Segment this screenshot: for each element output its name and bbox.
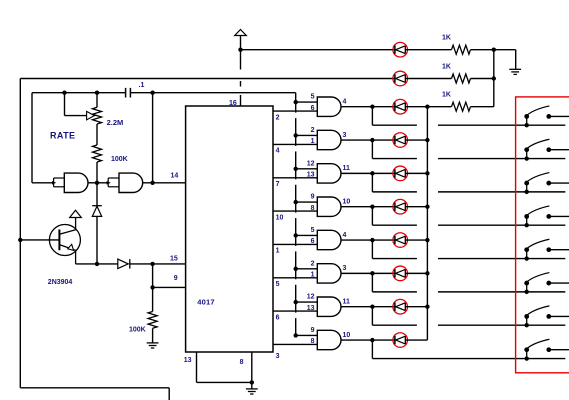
AND gate U1A — [64, 173, 88, 192]
wire 100K to ground — [152, 328, 154, 343]
node emitter/diode junction — [95, 262, 99, 266]
node LED bus row 5 — [425, 238, 429, 242]
wire gate 8 output — [341, 339, 395, 341]
wire jog 1 down — [371, 107, 373, 126]
wire jog 3 down — [371, 173, 373, 192]
wire LED 7 to LED bus — [405, 306, 427, 308]
svg-text:9: 9 — [174, 275, 178, 282]
wire jog 6 down — [371, 273, 373, 292]
node clock bus tap row 6 — [294, 267, 298, 271]
wire row3 LED to bus — [405, 106, 451, 108]
wire row2 resistor to bus — [471, 78, 494, 80]
switch S3 — [526, 183, 528, 192]
wire power rail to 4017 pin 16 (broken at crossings) — [240, 50, 242, 70]
node transistor base tap — [18, 238, 22, 242]
wire row2 (top of outer loop) — [20, 78, 395, 80]
svg-text:1: 1 — [311, 138, 315, 145]
node LED bus row 3 — [425, 171, 429, 175]
wire LED 5 to LED bus — [405, 239, 427, 241]
wire LED 4 to LED bus — [405, 206, 427, 208]
node gate 8 output / jog tap — [370, 338, 374, 342]
svg-text:5: 5 — [276, 281, 280, 288]
switch S4 — [526, 216, 528, 225]
svg-text:10: 10 — [276, 214, 284, 221]
svg-text:6: 6 — [276, 314, 280, 321]
wire jog 8 down — [371, 340, 373, 359]
LED D4 — [393, 133, 408, 148]
svg-text:100K: 100K — [111, 156, 128, 163]
wire power arrow stem — [240, 36, 242, 50]
AND gate G3 — [317, 164, 341, 183]
wire switch S5 contact out — [549, 249, 569, 251]
AND gate G7 — [317, 297, 341, 316]
wire jog 3 horizontal (broken at LED bus) — [372, 191, 417, 193]
LED D8 — [393, 266, 408, 281]
transistor Q1 2N3904 — [49, 225, 80, 256]
switch box (red) — [516, 97, 569, 373]
svg-text:8: 8 — [311, 205, 315, 212]
svg-text:1: 1 — [276, 248, 280, 255]
node clock bus tap row 2 — [294, 133, 298, 137]
switch S1 — [526, 116, 528, 125]
wire jog 8 horizontal — [372, 358, 565, 360]
svg-text:3: 3 — [343, 132, 347, 139]
wire oscillator loop left — [31, 93, 33, 183]
svg-text:1K: 1K — [442, 92, 451, 99]
node U1A out / RC junction — [95, 181, 99, 185]
wire 4017 pin 1 to gate 5 bottom input — [273, 243, 317, 245]
node row1/right bus — [492, 48, 496, 52]
wire pot to 100K — [96, 124, 98, 145]
node gate 1 output / jog tap — [370, 105, 374, 109]
svg-text:1K: 1K — [442, 35, 451, 42]
wire jog 4 horizontal (broken at LED bus) — [372, 224, 417, 226]
node clock bus tap row 8 — [294, 333, 298, 337]
wire gate 8 top input — [296, 334, 318, 336]
wire gate row to diode D11 — [96, 183, 98, 206]
AND gate G4 — [317, 197, 341, 216]
wire Q1 emitter — [59, 245, 75, 264]
wire gate 2 output — [341, 139, 395, 141]
node gate 4 output / jog tap — [370, 204, 374, 208]
svg-text:2: 2 — [311, 260, 315, 267]
svg-text:100K: 100K — [129, 327, 146, 334]
svg-text:14: 14 — [171, 172, 179, 179]
wire gate 3 top input — [296, 168, 318, 170]
wire LED 8 to LED bus — [405, 339, 427, 341]
svg-text:5: 5 — [311, 227, 315, 234]
svg-text:2: 2 — [276, 114, 280, 121]
wire switch S8 contact out — [549, 349, 569, 351]
wire jog 1 horizontal (broken at LED bus) — [372, 124, 417, 126]
ground (below R5) — [147, 342, 159, 344]
node gate 5 output / jog tap — [370, 238, 374, 242]
diode D12 (horizontal, cathode right) — [118, 259, 128, 269]
wire switch S1 contact out — [549, 115, 569, 117]
svg-text:15: 15 — [170, 255, 178, 262]
AND gate U1A input bracket — [52, 181, 56, 185]
LED D7 — [393, 233, 408, 248]
wire 4017 pin 5 to gate 6 bottom input — [273, 277, 317, 279]
wire jog 2 down — [371, 140, 373, 159]
wire switch S6 contact out — [549, 282, 569, 284]
svg-text:6: 6 — [311, 238, 315, 245]
wire jog 5 horizontal (broken at LED bus) — [372, 258, 417, 260]
wire gate 1 top input — [296, 101, 318, 103]
wire emitter row — [76, 263, 118, 265]
switch S6 — [526, 283, 528, 292]
svg-text:12: 12 — [307, 160, 315, 167]
switch S7 — [526, 316, 528, 325]
AND gate G1 — [317, 97, 341, 116]
svg-text:2: 2 — [311, 127, 315, 134]
svg-text:2N3904: 2N3904 — [48, 279, 73, 286]
node LED bus row 7 — [425, 304, 429, 308]
LED D6 — [393, 199, 408, 214]
wire row1 LED to resistor — [405, 49, 451, 51]
AND gate G5 — [317, 230, 341, 249]
wire gate 5 top input — [296, 234, 318, 236]
svg-text:5: 5 — [311, 94, 315, 101]
node pot top — [95, 91, 99, 95]
wire row2 LED to resistor — [405, 78, 451, 80]
svg-text:2.2M: 2.2M — [107, 118, 124, 127]
node pin8/pin13 junction — [250, 380, 254, 384]
wire gate 2 top input — [296, 134, 318, 136]
wire Q1 base — [20, 239, 59, 241]
node clock bus tap row 4 — [294, 200, 298, 204]
AND gate G2 — [317, 130, 341, 149]
wire LED 3 to LED bus — [405, 172, 427, 174]
wire pin 8 to ground — [251, 352, 253, 389]
wire pin15 to pin9 vertical — [152, 264, 154, 288]
wire gate 7 output — [341, 306, 395, 308]
wire pin9 down to 100K — [152, 287, 154, 311]
svg-text:4: 4 — [343, 99, 347, 106]
node pin9 junction — [150, 285, 154, 289]
node LED bus top — [425, 105, 429, 109]
svg-text:9: 9 — [311, 327, 315, 334]
wire LED 2 to LED bus — [405, 139, 427, 141]
wire gate 3 output — [341, 172, 395, 174]
wire jog 5 down — [371, 240, 373, 259]
wire wiper tap down/right — [64, 93, 66, 116]
svg-text:13: 13 — [307, 305, 315, 312]
node gate 6 output / jog tap — [370, 271, 374, 275]
svg-text:4: 4 — [276, 148, 280, 155]
node pin15 junction — [150, 262, 154, 266]
ground (top right) — [509, 68, 521, 70]
AND gate U1B — [119, 173, 143, 192]
wire jog 7 down — [371, 307, 373, 326]
wire row1 to ground stub — [494, 49, 516, 51]
node U1B out / feedback — [150, 181, 154, 185]
wire gate 1 output — [341, 106, 395, 108]
resistor R2 1K — [452, 74, 471, 83]
svg-text:10: 10 — [343, 198, 351, 205]
node wiper tap — [62, 91, 66, 95]
wire U1B output to pin 14 — [143, 182, 186, 184]
switch S5 — [526, 250, 528, 259]
node cap/gateB feedback junction — [150, 91, 154, 95]
pot wiper arrow — [87, 111, 95, 119]
LED D5 — [393, 166, 408, 181]
wire gate 4 top input — [296, 201, 318, 203]
wire bottom exit (down off page) — [168, 388, 170, 400]
svg-text:13: 13 — [184, 357, 192, 364]
LED D3 — [393, 99, 408, 114]
wire feedback vertical (cap row to gate B output) — [152, 93, 154, 183]
wire 4017 pin 7 to gate 3 bottom input — [273, 177, 317, 179]
wire switch S4 contact out — [549, 215, 569, 217]
wire row1 resistor to bus — [471, 49, 494, 51]
ground (4017 pin 8) — [246, 388, 258, 390]
svg-text:11: 11 — [343, 165, 351, 172]
wire diode to pin 15 — [130, 263, 186, 265]
node row2/right bus — [492, 76, 496, 80]
node clock bus tap row 5 — [294, 233, 298, 237]
node gate 3 output / jog tap — [370, 171, 374, 175]
wire jog 2 horizontal (broken at LED bus) — [372, 158, 417, 160]
wire 4017 pin 6 to gate 7 bottom input — [273, 310, 317, 312]
wire right vertical bus (rows1-3) — [493, 50, 495, 107]
LED D1 — [393, 42, 408, 57]
diode D11 (vertical, cathode up) — [92, 205, 102, 207]
wire clock bus corner — [295, 93, 297, 102]
wire jog 6 horizontal (broken at LED bus) — [372, 291, 417, 293]
wire LED 6 to LED bus — [405, 272, 427, 274]
svg-text:3: 3 — [276, 353, 280, 360]
wire row3 resistor to right bus corner — [471, 106, 494, 108]
wire 4017 pin 10 to gate 4 bottom input — [273, 210, 317, 212]
wire 4017 pin 3 to gate 8 bottom input — [273, 343, 317, 345]
wire U1A output — [88, 182, 97, 184]
wire Q1 collector — [59, 218, 75, 235]
wire pin 9 — [153, 286, 186, 288]
wire gate 7 top input — [296, 301, 318, 303]
wire LED bus vertical — [426, 107, 428, 340]
wire outer left vertical — [19, 79, 21, 388]
svg-text:1: 1 — [311, 272, 315, 279]
wire bottom left — [20, 387, 169, 389]
node LED bus row 2 — [425, 138, 429, 142]
node LED bus row 6 — [425, 271, 429, 275]
node gate 2 output / jog tap — [370, 138, 374, 142]
wire 4017 pin 2 to gate 1 bottom input — [273, 110, 317, 112]
wire switch S2 contact out — [549, 149, 569, 151]
LED D10 — [393, 333, 408, 348]
Q1 emitter arrow — [68, 244, 74, 250]
LED D9 — [393, 299, 408, 314]
svg-text:6: 6 — [311, 105, 315, 112]
switch S2 — [526, 150, 528, 159]
svg-text:10: 10 — [343, 332, 351, 339]
capacitor C1 .1 — [125, 88, 127, 98]
wire diode to bottom row — [96, 216, 98, 264]
power arrow V+ (transistor collector) — [70, 210, 82, 217]
svg-text:12: 12 — [307, 294, 315, 301]
svg-text:1K: 1K — [442, 63, 451, 70]
wire row1 left — [241, 49, 395, 51]
LED D2 — [393, 71, 408, 86]
node gate 7 output / jog tap — [370, 304, 374, 308]
wire gate 6 top input — [296, 268, 318, 270]
AND gate U1B input bracket — [107, 181, 111, 185]
resistor R6 1K — [452, 102, 471, 111]
svg-text:13: 13 — [307, 172, 315, 179]
wire clock bus vertical (broken at pin crossings) — [295, 102, 297, 113]
svg-text:8: 8 — [311, 338, 315, 345]
svg-text:RATE: RATE — [50, 130, 75, 140]
wire 100K to gate row — [96, 162, 98, 183]
wire capacitor to bus corner — [130, 92, 295, 94]
svg-text:9: 9 — [311, 194, 315, 201]
svg-text:4: 4 — [343, 232, 347, 239]
resistor R5 100K — [148, 312, 157, 329]
wire oscillator top (to capacitor) — [32, 92, 126, 94]
svg-text:3: 3 — [343, 265, 347, 272]
svg-text:7: 7 — [276, 181, 280, 188]
svg-text:11: 11 — [343, 298, 351, 305]
wire 4017 pin 4 to gate 2 bottom input — [273, 143, 317, 145]
svg-text:.1: .1 — [139, 82, 145, 89]
node LED bus row 4 — [425, 204, 429, 208]
svg-text:4017: 4017 — [197, 298, 215, 307]
power arrow V+ (top) — [235, 30, 247, 36]
resistor R1 1K — [452, 45, 471, 54]
node power/row1 junction — [238, 48, 242, 52]
wire jog 4 down — [371, 207, 373, 226]
switch S8 — [526, 350, 528, 359]
svg-text:8: 8 — [240, 359, 244, 366]
node clock bus tap row 7 — [294, 300, 298, 304]
AND gate G8 — [317, 330, 341, 349]
wire gate 4 output — [341, 206, 395, 208]
wire pin 13 — [196, 352, 198, 382]
AND gate G6 — [317, 264, 341, 283]
potentiometer R3 2.2M — [96, 93, 98, 108]
IC U2 4017 — [186, 106, 273, 352]
wire jog 7 horizontal (broken at LED bus) — [372, 324, 417, 326]
wire switch S7 contact out — [549, 315, 569, 317]
resistor R4 100K — [93, 145, 102, 162]
node clock bus tap row 1 — [294, 100, 298, 104]
wire switch S3 contact out — [549, 182, 569, 184]
node clock bus tap row 3 — [294, 167, 298, 171]
wire gate 6 output — [341, 272, 395, 274]
wire to U1B input — [97, 182, 108, 184]
wire gate 5 output — [341, 239, 395, 241]
